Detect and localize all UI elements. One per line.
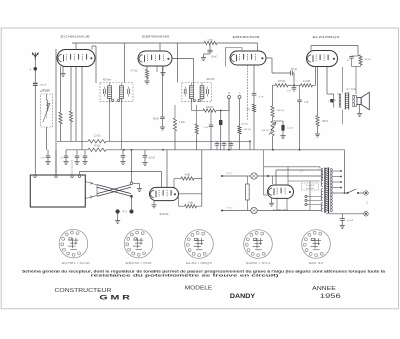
tube V4 EL84 envelope bbox=[307, 51, 338, 67]
ground speaker bbox=[359, 105, 361, 114]
svg-text:EBF80/6N8: EBF80/6N8 bbox=[142, 35, 170, 39]
wire OT top feed bbox=[337, 93, 341, 95]
svg-text:270 kΩ: 270 kΩ bbox=[364, 59, 371, 61]
resistor R5 1M det bbox=[191, 99, 193, 111]
interbus capacitor C20 bbox=[216, 141, 218, 143]
IF1 secondary winding bbox=[120, 86, 124, 99]
voltage selector box bbox=[302, 183, 319, 190]
svg-text:2 nF: 2 nF bbox=[287, 91, 292, 93]
svg-text:50 nF: 50 nF bbox=[291, 68, 298, 71]
svg-text:5 nF: 5 nF bbox=[40, 158, 45, 160]
wire AVC bus top bbox=[72, 42, 204, 44]
svg-text:470 kΩ: 470 kΩ bbox=[278, 81, 286, 83]
svg-text:455 kHz: 455 kHz bbox=[42, 90, 51, 92]
OT primary bbox=[340, 94, 342, 108]
svg-text:50 nF: 50 nF bbox=[149, 158, 155, 160]
svg-text:0,1 µF: 0,1 µF bbox=[347, 220, 354, 222]
decoupling capacitor C18 bbox=[122, 150, 124, 156]
wire V3 screen loop bbox=[225, 48, 227, 67]
pinout socket EZ80 bbox=[244, 230, 273, 259]
svg-text:ANNEE: ANNEE bbox=[312, 286, 336, 292]
svg-text:5 nF: 5 nF bbox=[259, 97, 264, 99]
svg-text:EBF80/6N8: EBF80/6N8 bbox=[233, 35, 261, 39]
svg-text:CONSTRUCTEUR: CONSTRUCTEUR bbox=[55, 288, 112, 294]
lamp M2 bbox=[251, 207, 257, 213]
wire V1 pin2 down bbox=[60, 67, 62, 113]
wire V1 pin5 down bbox=[81, 67, 83, 150]
terminal Y bbox=[238, 96, 241, 99]
resistor R17 1M bbox=[185, 205, 197, 208]
ground EM34 bbox=[153, 201, 155, 205]
wire cadre ground stub bbox=[133, 182, 140, 184]
wire V3 pin down bbox=[253, 65, 255, 93]
capacitor C5 electrolytic bbox=[220, 111, 222, 120]
capacitor C6 2nF bbox=[210, 111, 212, 126]
selector taps bbox=[305, 195, 307, 197]
transformer tap 4 bbox=[333, 187, 342, 189]
wire det to B bbox=[216, 110, 229, 112]
svg-text:6 V 3 ~: 6 V 3 ~ bbox=[227, 173, 235, 175]
pinout socket EM34 bbox=[302, 230, 331, 259]
capacitor C12 bbox=[357, 55, 359, 56]
wire mains lower bbox=[326, 213, 364, 215]
svg-text:2,2 MΩ: 2,2 MΩ bbox=[303, 81, 311, 83]
wire V1 grid drop bbox=[75, 43, 77, 50]
svg-text:4 MΩ: 4 MΩ bbox=[185, 175, 191, 177]
transformer tap 5 to switch bbox=[333, 192, 347, 194]
svg-text:50 pF: 50 pF bbox=[211, 56, 217, 58]
capacitor C10 1nF bbox=[299, 85, 301, 100]
junction det bbox=[220, 110, 222, 112]
svg-text:résistance du potentiomètre se: résistance du potentiomètre se trouve en… bbox=[91, 274, 279, 278]
wire V1 pin4 down bbox=[75, 67, 77, 142]
capacitor C8 50nF bbox=[290, 71, 292, 76]
wire R1 to HT bus bbox=[60, 124, 62, 141]
wire V3 plate bbox=[266, 57, 272, 59]
terminal mains lower bbox=[364, 212, 368, 216]
wire EM34 feed 2 bbox=[166, 150, 168, 188]
svg-text:1 nF: 1 nF bbox=[304, 102, 309, 104]
IF transformer T1 box bbox=[100, 83, 133, 102]
wire cadre to bus bbox=[131, 150, 133, 182]
wire drop to IF1 secondary bbox=[124, 43, 126, 83]
wire R9 left down bbox=[273, 84, 276, 86]
transformer tap 2 bbox=[333, 176, 342, 178]
wire EZ80 pin drops bbox=[276, 198, 278, 210]
wire gang3 up bbox=[71, 160, 73, 175]
resistor R13 bbox=[359, 55, 362, 65]
capacitor C11 tone bbox=[282, 121, 284, 125]
junction cadre bottom bbox=[130, 195, 133, 198]
junction antenna node bbox=[34, 67, 38, 71]
svg-text:Z = 7 kΩ: Z = 7 kΩ bbox=[346, 88, 355, 91]
tube V3 EBF80 envelope bbox=[230, 51, 266, 65]
IF2 primary capacitor bbox=[183, 89, 185, 94]
resistor R14 2.2k HT bbox=[88, 140, 106, 143]
antenna bbox=[32, 53, 38, 60]
wire gang2 up bbox=[55, 150, 57, 175]
terminal B bbox=[228, 96, 231, 99]
svg-text:EL84 / 6BQ5: EL84 / 6BQ5 bbox=[186, 262, 213, 265]
capacitor C7 5nF bbox=[252, 93, 257, 95]
ground PU bbox=[117, 214, 119, 220]
wire R2 down bbox=[70, 122, 72, 141]
wire V3 osc line bbox=[246, 65, 248, 121]
decoupling capacitor C16 bbox=[76, 150, 78, 156]
svg-text:750 kΩ: 750 kΩ bbox=[277, 110, 284, 112]
HT bus line bbox=[57, 140, 88, 142]
OT secondary bbox=[352, 95, 354, 107]
resistor R12 cathode bbox=[317, 67, 319, 116]
wire network bottom bbox=[352, 66, 361, 68]
transformer secondary HV bbox=[321, 169, 323, 187]
wire C8 to junction bbox=[292, 72, 294, 74]
wire EZ80 plate a bbox=[275, 170, 277, 185]
IF2 secondary winding bbox=[200, 86, 204, 99]
svg-text:2,2 kΩ: 2,2 kΩ bbox=[94, 136, 101, 138]
svg-text:2 nF: 2 nF bbox=[204, 127, 209, 129]
svg-text:EM 34: EM 34 bbox=[309, 262, 324, 265]
wire oscillator grid line bbox=[55, 49, 57, 175]
wire AF line bbox=[80, 171, 162, 173]
svg-text:100 kΩ: 100 kΩ bbox=[244, 129, 251, 131]
gang terminal 2 bbox=[55, 175, 57, 177]
resistor R7 det load bbox=[196, 105, 198, 124]
gang terminal 3 bbox=[71, 175, 73, 177]
wire L1 down bbox=[46, 127, 48, 150]
wire grid V4 bbox=[313, 84, 316, 86]
wire to PU bbox=[131, 198, 133, 210]
wire V1 pin3 down bbox=[70, 67, 72, 112]
tube V1 ECH81 envelope bbox=[57, 50, 95, 67]
cadre loop lines bbox=[97, 185, 131, 194]
transformer secondary low bbox=[321, 203, 323, 212]
transformer primary bbox=[331, 169, 333, 212]
terminal mains upper bbox=[364, 191, 368, 195]
IF1 trimmer terminals bbox=[111, 99, 113, 101]
IF1 primary capacitor bbox=[103, 89, 105, 94]
wire gang4 up bbox=[79, 172, 81, 176]
svg-text:1 MΩ: 1 MΩ bbox=[179, 122, 185, 124]
capacitor C23 mains bbox=[341, 214, 343, 219]
wire V4 top line bbox=[311, 45, 358, 47]
decoupling capacitor C19 50nF bbox=[144, 150, 146, 156]
IF2 secondary capacitor bbox=[206, 89, 208, 94]
capacitor C13 plate bbox=[330, 99, 333, 102]
svg-text:EBF80 / 6N8: EBF80 / 6N8 bbox=[126, 262, 153, 265]
OT core bbox=[344, 93, 346, 110]
resistor R4 1M bbox=[174, 105, 176, 118]
capacitor C-AVC 50pF bbox=[209, 43, 211, 50]
gang terminal 1 bbox=[34, 175, 36, 177]
svg-text:100 kΩ: 100 kΩ bbox=[241, 124, 248, 126]
heater line lower bbox=[222, 210, 251, 212]
resistor R16 4M bbox=[181, 177, 194, 180]
wire V2 plate to IF2 bbox=[172, 58, 194, 60]
junction bus dots bbox=[123, 149, 125, 151]
wire rect line2 bbox=[272, 176, 274, 184]
resistor R10 2.2M bbox=[301, 84, 313, 87]
capacitor C9 bbox=[292, 87, 297, 89]
wire tone link bbox=[273, 120, 284, 122]
heater terminals bbox=[221, 175, 223, 177]
svg-text:500 kΩ: 500 kΩ bbox=[262, 130, 269, 132]
IF2 trimmer terminals bbox=[193, 99, 195, 101]
resistor R-AVC 1M bbox=[204, 41, 217, 44]
capacitor C4 68pF bbox=[162, 66, 164, 117]
B+ bus line bbox=[66, 149, 88, 151]
svg-text:G M R: G M R bbox=[99, 294, 130, 301]
wire V2 top drop bbox=[159, 43, 161, 51]
svg-text:1 MΩ: 1 MΩ bbox=[207, 40, 213, 42]
svg-text:47 kΩ: 47 kΩ bbox=[94, 145, 100, 147]
lamp M1 bbox=[251, 173, 257, 179]
svg-text:250 pF: 250 pF bbox=[40, 84, 47, 86]
coil L1 rejector box bbox=[41, 94, 53, 127]
decoupling capacitor C17 bbox=[84, 150, 86, 156]
resistor R8 bbox=[252, 104, 255, 112]
wire cadre link b bbox=[85, 195, 97, 198]
IF transformer T2 box bbox=[182, 83, 212, 102]
svg-text:100 kΩ: 100 kΩ bbox=[206, 107, 214, 109]
IF2 primary winding bbox=[190, 86, 194, 99]
svg-text:MODELE: MODELE bbox=[185, 286, 213, 292]
potentiometer P1 tone bbox=[272, 117, 274, 121]
tube V2 EBF80 envelope bbox=[138, 51, 172, 66]
svg-text:68 pF: 68 pF bbox=[153, 119, 159, 121]
svg-text:ECH81 / 6AJ8: ECH81 / 6AJ8 bbox=[62, 262, 91, 265]
pinout socket ECH81 bbox=[59, 229, 88, 258]
wire EZ80 left feed bbox=[263, 167, 265, 195]
junction coupling bbox=[293, 84, 295, 86]
IF1 secondary capacitor bbox=[127, 89, 129, 94]
svg-text:5 V: 5 V bbox=[300, 170, 304, 172]
wire EM34 target anode bbox=[178, 193, 201, 195]
ground EZ80 bbox=[271, 198, 273, 202]
svg-text:EL84/6BQ5: EL84/6BQ5 bbox=[313, 35, 341, 39]
pinout socket EL84 bbox=[185, 230, 214, 259]
svg-text:ECH81/6AJ8: ECH81/6AJ8 bbox=[61, 35, 91, 39]
fuse block bbox=[246, 184, 250, 200]
wire cadre link a bbox=[85, 182, 97, 186]
svg-text:E Z 80 / 6V4: E Z 80 / 6V4 bbox=[273, 208, 288, 212]
svg-text:455 kHz: 455 kHz bbox=[206, 79, 215, 81]
wire HT feed bbox=[344, 150, 346, 193]
decoupling capacitor C15 bbox=[65, 150, 67, 156]
transformer tap 1 bbox=[333, 170, 342, 172]
wire EZ80 plate b bbox=[287, 167, 289, 185]
wire rect line3 bbox=[288, 180, 320, 182]
wire V1 plate to IF1 bbox=[91, 46, 93, 50]
wire V4 plate to OT bbox=[326, 67, 328, 95]
capacitor C-ant bbox=[33, 82, 38, 84]
wire IF1 secondary down bbox=[121, 99, 123, 150]
ground V1 cathode bbox=[62, 67, 64, 74]
tuning gang block bbox=[30, 175, 85, 207]
wire Y down bbox=[239, 99, 241, 126]
tube V5 EM34 envelope bbox=[150, 187, 179, 200]
wire R17 leads bbox=[179, 205, 185, 207]
wire EM34 right rail bbox=[201, 150, 203, 206]
gang terminal 4 bbox=[78, 175, 80, 177]
terminal PU right bbox=[129, 209, 133, 213]
resistor R3 4.7k bbox=[146, 66, 148, 70]
heater line upper bbox=[222, 175, 251, 177]
wire rect line1 bbox=[264, 166, 320, 168]
wire R16 leads bbox=[174, 178, 181, 180]
tube V6 EZ80 envelope bbox=[268, 185, 294, 198]
svg-text:180 Ω: 180 Ω bbox=[322, 121, 328, 123]
resistor R6 vol bbox=[238, 126, 241, 134]
svg-text:6 V 3 ~: 6 V 3 ~ bbox=[227, 208, 235, 210]
svg-text:455 kHz: 455 kHz bbox=[103, 80, 112, 82]
switch S1 bbox=[347, 192, 349, 194]
wire antenna down bbox=[34, 60, 36, 84]
svg-text:C: C bbox=[366, 202, 368, 205]
transformer tap 3 bbox=[333, 181, 342, 183]
wire OT to speaker bbox=[353, 95, 357, 97]
svg-text:EZ80 / 6V4: EZ80 / 6V4 bbox=[246, 262, 271, 265]
decoupling capacitor C14 bbox=[47, 150, 49, 156]
pinout socket EBF80 bbox=[124, 229, 153, 258]
IF1 primary winding bbox=[108, 86, 112, 99]
svg-text:DANDY: DANDY bbox=[230, 293, 256, 300]
svg-text:E M 34: E M 34 bbox=[160, 212, 169, 216]
mains transformer core bbox=[324, 168, 326, 214]
wire IF2 grid drop bbox=[177, 43, 179, 83]
resistor R11 750k bbox=[271, 106, 274, 117]
svg-text:4,7 kΩ: 4,7 kΩ bbox=[131, 71, 138, 73]
transformer secondary mid bbox=[321, 189, 323, 201]
resistor R2 100 bbox=[69, 111, 72, 122]
svg-text:0,1 µF: 0,1 µF bbox=[287, 128, 294, 130]
speaker HP bbox=[357, 98, 361, 105]
wire IF1 primary down bbox=[109, 99, 111, 142]
terminal PU left bbox=[116, 209, 120, 213]
resistor R1 2.2k bbox=[59, 112, 62, 124]
svg-text:3 x 600 Ω: 3 x 600 Ω bbox=[306, 185, 315, 187]
ground R3 bbox=[146, 79, 148, 81]
interbus capacitor C22 bbox=[230, 141, 232, 143]
resistor R15 47k bbox=[88, 148, 106, 151]
svg-text:P U: P U bbox=[123, 212, 127, 214]
svg-text:1 MΩ: 1 MΩ bbox=[188, 203, 194, 205]
coil L1 winding bbox=[47, 100, 48, 111]
interbus capacitor C21 bbox=[223, 141, 225, 143]
wire EM34 feed 1 bbox=[161, 172, 163, 188]
wire AVC to V3 grid bbox=[217, 42, 258, 44]
wire B down bbox=[228, 99, 230, 111]
cadre terminal top bbox=[130, 182, 133, 185]
wire V2 cathode stubs bbox=[156, 67, 158, 73]
svg-text:1956: 1956 bbox=[320, 293, 342, 300]
wire heater box top bbox=[249, 141, 251, 150]
svg-text:alu 50 Hz: alu 50 Hz bbox=[306, 188, 314, 190]
resistor R9 470k bbox=[275, 84, 288, 87]
